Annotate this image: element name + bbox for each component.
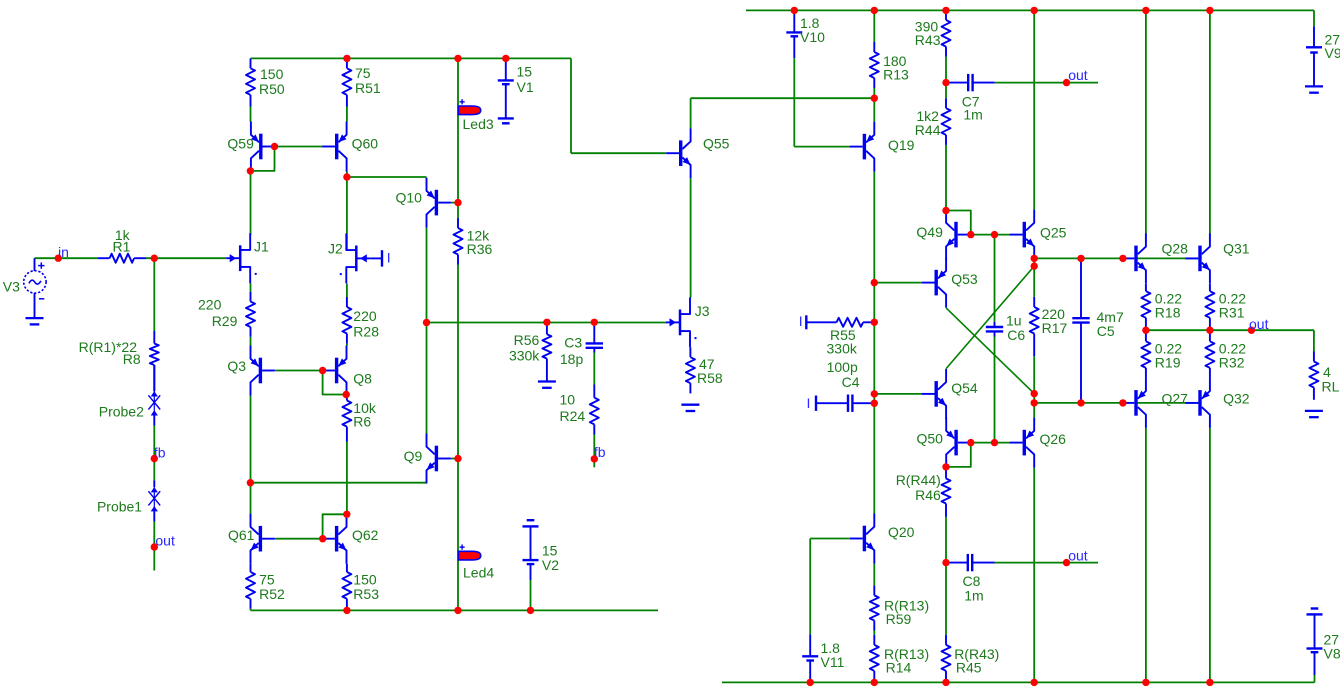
svg-text:R17: R17 bbox=[1042, 320, 1068, 336]
svg-text:Q9: Q9 bbox=[404, 448, 423, 464]
svg-text:15: 15 bbox=[542, 543, 558, 559]
svg-text:Q31: Q31 bbox=[1223, 241, 1250, 257]
svg-text:C6: C6 bbox=[1007, 327, 1025, 343]
svg-text:Q49: Q49 bbox=[916, 224, 943, 240]
svg-text:Q10: Q10 bbox=[396, 190, 423, 206]
svg-text:R31: R31 bbox=[1219, 304, 1245, 320]
svg-text:V10: V10 bbox=[800, 29, 825, 45]
svg-text:Q54: Q54 bbox=[951, 380, 978, 396]
svg-text:out: out bbox=[1068, 67, 1088, 83]
svg-text:Q20: Q20 bbox=[888, 524, 915, 540]
svg-text:220: 220 bbox=[198, 297, 222, 313]
svg-text:R56: R56 bbox=[514, 332, 540, 348]
svg-text:V8: V8 bbox=[1324, 645, 1340, 661]
svg-text:R53: R53 bbox=[353, 586, 379, 602]
svg-text:out: out bbox=[1249, 316, 1269, 332]
svg-text:Q60: Q60 bbox=[352, 136, 379, 152]
svg-text:out: out bbox=[155, 532, 175, 548]
svg-text:15: 15 bbox=[517, 64, 533, 80]
svg-text:10: 10 bbox=[560, 392, 576, 408]
svg-text:18p: 18p bbox=[560, 351, 584, 367]
svg-text:Q26: Q26 bbox=[1040, 431, 1067, 447]
svg-text:V9: V9 bbox=[1325, 45, 1340, 61]
svg-text:Q62: Q62 bbox=[352, 527, 379, 543]
svg-text:I: I bbox=[807, 395, 811, 411]
svg-text:R6: R6 bbox=[353, 414, 371, 430]
svg-text:Q53: Q53 bbox=[951, 271, 978, 287]
svg-text:Q3: Q3 bbox=[227, 358, 246, 374]
svg-text:150: 150 bbox=[260, 66, 284, 82]
svg-text:fb: fb bbox=[154, 444, 166, 460]
svg-text:R18: R18 bbox=[1155, 304, 1181, 320]
svg-text:1m: 1m bbox=[963, 107, 982, 123]
svg-text:Q61: Q61 bbox=[228, 527, 255, 543]
svg-text:Led3: Led3 bbox=[463, 116, 494, 132]
svg-text:R59: R59 bbox=[886, 611, 912, 627]
svg-text:C5: C5 bbox=[1097, 323, 1115, 339]
svg-text:1m: 1m bbox=[964, 588, 983, 604]
svg-text:R1: R1 bbox=[113, 239, 131, 255]
svg-text:Q50: Q50 bbox=[917, 431, 944, 447]
svg-text:R46: R46 bbox=[915, 487, 941, 503]
svg-text:R29: R29 bbox=[212, 313, 238, 329]
svg-text:Led4: Led4 bbox=[463, 565, 494, 581]
svg-text:R8: R8 bbox=[123, 351, 141, 367]
svg-text:I: I bbox=[799, 313, 803, 329]
svg-text:R14: R14 bbox=[886, 660, 912, 676]
svg-text:out: out bbox=[1068, 548, 1088, 564]
svg-text:V3: V3 bbox=[3, 279, 20, 295]
svg-text:R(R44): R(R44) bbox=[896, 472, 941, 488]
svg-text:Q32: Q32 bbox=[1223, 391, 1250, 407]
svg-text:fb: fb bbox=[594, 444, 606, 460]
svg-text:Q19: Q19 bbox=[888, 137, 915, 153]
svg-text:C3: C3 bbox=[564, 334, 582, 350]
svg-text:R28: R28 bbox=[353, 324, 379, 340]
svg-text:J3: J3 bbox=[695, 303, 710, 319]
svg-text:R52: R52 bbox=[259, 586, 285, 602]
svg-text:Q55: Q55 bbox=[703, 136, 730, 152]
svg-text:100p: 100p bbox=[827, 359, 858, 375]
svg-text:RL: RL bbox=[1322, 379, 1340, 395]
svg-text:Q25: Q25 bbox=[1040, 224, 1067, 240]
svg-text:R13: R13 bbox=[883, 67, 909, 83]
svg-text:R19: R19 bbox=[1155, 355, 1181, 371]
svg-text:220: 220 bbox=[353, 308, 377, 324]
svg-text:C4: C4 bbox=[842, 374, 860, 390]
svg-text:V1: V1 bbox=[517, 79, 534, 95]
svg-text:I: I bbox=[387, 250, 391, 266]
svg-text:330k: 330k bbox=[509, 347, 540, 363]
svg-text:R58: R58 bbox=[697, 370, 723, 386]
svg-text:R24: R24 bbox=[560, 408, 586, 424]
svg-text:V11: V11 bbox=[821, 654, 845, 670]
svg-text:Probe2: Probe2 bbox=[99, 404, 144, 420]
svg-text:R32: R32 bbox=[1219, 355, 1245, 371]
svg-text:R44: R44 bbox=[915, 122, 941, 138]
svg-text:R45: R45 bbox=[956, 660, 982, 676]
svg-text:R51: R51 bbox=[355, 80, 381, 96]
svg-text:R36: R36 bbox=[467, 241, 493, 257]
svg-text:R43: R43 bbox=[915, 32, 941, 48]
svg-text:R50: R50 bbox=[259, 81, 285, 97]
svg-text:75: 75 bbox=[355, 65, 371, 81]
svg-text:330k: 330k bbox=[827, 340, 858, 356]
svg-text:J2: J2 bbox=[328, 241, 343, 257]
svg-text:in: in bbox=[58, 244, 69, 260]
svg-text:Probe1: Probe1 bbox=[97, 499, 142, 515]
svg-text:Q59: Q59 bbox=[227, 136, 254, 152]
svg-text:J1: J1 bbox=[254, 239, 269, 255]
svg-text:Q27: Q27 bbox=[1162, 391, 1189, 407]
svg-text:Q8: Q8 bbox=[353, 371, 372, 387]
svg-text:V2: V2 bbox=[542, 557, 559, 573]
svg-text:Q28: Q28 bbox=[1162, 241, 1189, 257]
